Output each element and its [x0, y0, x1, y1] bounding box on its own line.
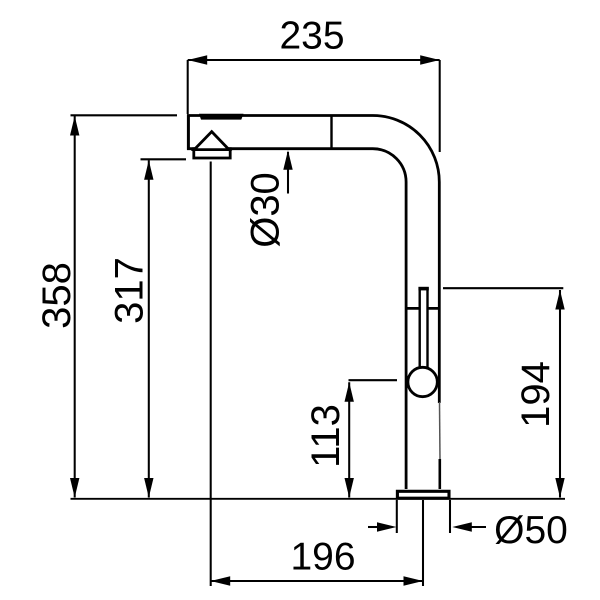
svg-text:196: 196: [290, 536, 355, 579]
spray head top thick bar: [199, 114, 244, 120]
nozzle rectangle below spray head: [194, 149, 230, 158]
dimension Ø30 (spout diameter arrow): [244, 150, 293, 248]
svg-text:113: 113: [304, 404, 348, 468]
base flange: [397, 491, 449, 498]
counter baseline: [71, 498, 566, 500]
dimension 235 (top): [188, 15, 440, 152]
dimension 194 (right): [443, 288, 565, 497]
nozzle triangle detent: [194, 132, 229, 150]
lever rod: [418, 289, 428, 369]
dimension Ø50 (base diameter): [368, 500, 568, 552]
svg-text:317: 317: [108, 257, 152, 324]
faucet inner outline (spout bottom edge, bend, riser left edge): [187, 149, 406, 489]
faucet outer outline (spout top edge, bend, riser right edge): [187, 116, 439, 404]
faint handle line on riser right edge below ball: [439, 402, 442, 460]
svg-text:194: 194: [514, 361, 558, 428]
dimension 196 (bottom): [211, 162, 423, 587]
svg-text:235: 235: [279, 15, 344, 58]
svg-text:Ø50: Ø50: [494, 509, 568, 552]
svg-text:Ø30: Ø30: [244, 172, 288, 248]
dimension 113 (center): [304, 380, 397, 497]
dimension 317 (left): [108, 159, 187, 497]
dimension 358 (far left): [35, 115, 177, 497]
riser joint line at lever level: [406, 307, 439, 310]
lever ball joint circle: [408, 367, 437, 396]
joint line between spray head and spout: [330, 116, 332, 149]
spray head left edge: [187, 114, 190, 149]
svg-text:358: 358: [35, 262, 79, 329]
riser right edge lower segment: [438, 459, 441, 489]
